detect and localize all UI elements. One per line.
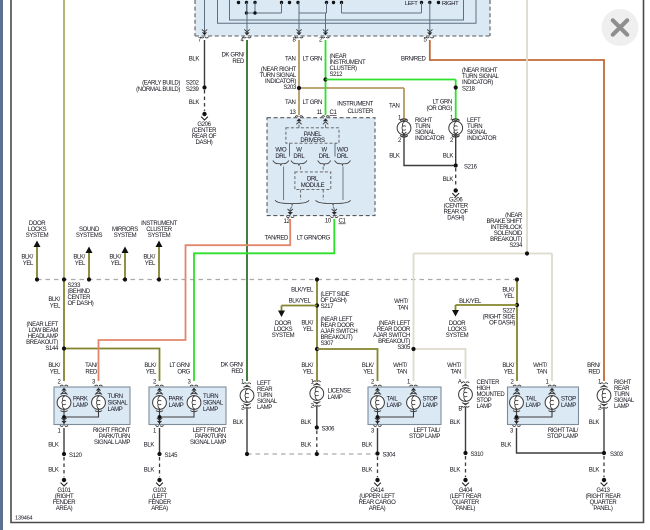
svg-text:S145: S145 xyxy=(165,453,179,459)
svg-text:WHT/: WHT/ xyxy=(393,363,408,369)
svg-text:BLK: BLK xyxy=(450,468,461,474)
cluster pin 11 C1 xyxy=(322,116,330,125)
park lamp bulb (right front) xyxy=(57,393,71,412)
svg-text:YEL: YEL xyxy=(75,261,86,267)
svg-text:10: 10 xyxy=(325,219,332,225)
svg-text:BRN/RED: BRN/RED xyxy=(401,57,427,63)
svg-text:LT GRN/ORG: LT GRN/ORG xyxy=(297,236,331,242)
svg-text:BLK: BLK xyxy=(233,420,244,426)
node sound systems arrow xyxy=(88,251,90,280)
ground G404 left rear quarter panel xyxy=(463,478,467,482)
svg-text:YEL: YEL xyxy=(50,304,61,310)
wire WHT/TAN from top to S234 xyxy=(526,0,528,254)
svg-text:BLK: BLK xyxy=(450,420,461,426)
svg-text:BLK/: BLK/ xyxy=(301,321,313,327)
svg-text:S239: S239 xyxy=(186,87,200,93)
svg-text:YEL: YEL xyxy=(504,370,515,376)
svg-text:OF DASH): OF DASH) xyxy=(489,321,515,327)
svg-text:SIGNAL LAMP: SIGNAL LAMP xyxy=(94,440,130,446)
svg-text:LAMP: LAMP xyxy=(169,403,184,409)
wire LT GRN/ORG cluster pin 10 to left front turn lamp xyxy=(194,219,334,381)
wire WHT/TAN branch to center high mounted stop lamp xyxy=(414,349,466,379)
svg-text:BLK/: BLK/ xyxy=(48,297,60,303)
turn signal lamp bulb (left front) xyxy=(187,393,201,412)
svg-text:LAMP: LAMP xyxy=(477,404,492,410)
svg-text:S202: S202 xyxy=(186,81,200,87)
svg-text:DASH): DASH) xyxy=(196,140,213,146)
panel drivers module xyxy=(298,125,300,128)
svg-text:BLK: BLK xyxy=(144,468,155,474)
cluster pin 12 xyxy=(290,207,292,210)
svg-text:LAMP: LAMP xyxy=(561,403,576,409)
svg-text:BLK: BLK xyxy=(189,100,200,106)
close button xyxy=(602,9,639,46)
svg-text:S217: S217 xyxy=(321,304,335,310)
svg-text:PANEL): PANEL) xyxy=(593,506,612,512)
svg-text:CLUSTER: CLUSTER xyxy=(347,109,374,115)
svg-text:BLK/: BLK/ xyxy=(21,255,33,261)
svg-text:YEL: YEL xyxy=(504,294,515,300)
svg-text:LAMP: LAMP xyxy=(108,407,123,413)
svg-text:BLK/: BLK/ xyxy=(144,363,156,369)
svg-text:LAMP: LAMP xyxy=(526,403,541,409)
ground G101 right fender area xyxy=(62,478,66,482)
switch contact dots xyxy=(237,1,240,4)
svg-text:S203: S203 xyxy=(283,85,297,91)
svg-text:DRL: DRL xyxy=(293,154,305,160)
svg-text:(EARLY BUILD): (EARLY BUILD) xyxy=(142,81,180,87)
svg-text:RED: RED xyxy=(85,370,98,376)
svg-text:SYSTEM: SYSTEM xyxy=(148,233,171,239)
svg-text:WHT/: WHT/ xyxy=(533,363,548,369)
svg-text:TAN: TAN xyxy=(450,370,461,376)
splice S233 behind center of dash xyxy=(62,277,66,281)
svg-text:BLK/YEL: BLK/YEL xyxy=(289,299,312,305)
ground G206 center rear of dash xyxy=(202,112,206,116)
svg-text:SYSTEM: SYSTEM xyxy=(26,233,49,239)
multifunction switch box (cut off at top) xyxy=(195,0,490,36)
svg-text:LAMP: LAMP xyxy=(73,403,88,409)
ground G206 center rear of dash (second) xyxy=(454,188,458,192)
svg-text:BLK/YEL: BLK/YEL xyxy=(291,288,314,294)
svg-text:BLK: BLK xyxy=(48,468,59,474)
turn signal lamp bulb (right front) xyxy=(92,393,106,412)
svg-text:WHT/: WHT/ xyxy=(447,363,462,369)
svg-text:STOP LAMP: STOP LAMP xyxy=(547,434,578,440)
svg-text:INSTRUMENT: INSTRUMENT xyxy=(337,102,374,108)
node door locks system arrow xyxy=(36,245,38,280)
svg-text:LAMP: LAMP xyxy=(387,403,402,409)
svg-text:(OR ORG): (OR ORG) xyxy=(426,106,452,112)
svg-text:BLK/: BLK/ xyxy=(143,255,155,261)
svg-text:DK GRN/: DK GRN/ xyxy=(221,53,244,59)
svg-text:TAN/RED: TAN/RED xyxy=(265,236,289,242)
splice S217 left side of dash xyxy=(316,280,318,382)
svg-text:TAN: TAN xyxy=(396,370,407,376)
svg-text:S216: S216 xyxy=(464,165,478,171)
svg-text:STOP: STOP xyxy=(561,397,576,403)
svg-text:YEL: YEL xyxy=(303,370,314,376)
svg-text:BLK: BLK xyxy=(301,443,312,449)
svg-text:TAN: TAN xyxy=(285,57,296,63)
ground G414 upper left rear cargo area xyxy=(375,478,379,482)
wire BLK/YEL arrow to door locks system (right) xyxy=(456,304,518,306)
svg-text:S234: S234 xyxy=(509,243,523,249)
svg-text:RED: RED xyxy=(588,370,601,376)
svg-text:BLK: BLK xyxy=(589,420,600,426)
tail lamp bulb (left) xyxy=(371,393,385,412)
splice S227 right side of dash xyxy=(516,280,518,382)
svg-text:DRL: DRL xyxy=(337,154,349,160)
stop lamp bulb (right) xyxy=(545,393,559,412)
svg-text:SIGNAL LAMP: SIGNAL LAMP xyxy=(190,440,226,446)
svg-text:BLK: BLK xyxy=(589,468,600,474)
svg-text:BLK: BLK xyxy=(362,443,373,449)
svg-text:W/O: W/O xyxy=(275,148,287,154)
switch inner outline A xyxy=(218,0,477,23)
svg-text:LAMP: LAMP xyxy=(257,405,272,411)
svg-text:LAMP: LAMP xyxy=(423,403,438,409)
svg-text:PARK: PARK xyxy=(169,397,184,403)
svg-text:BLK/: BLK/ xyxy=(109,255,121,261)
svg-text:TAN: TAN xyxy=(397,306,408,312)
svg-text:S306: S306 xyxy=(322,427,336,433)
svg-text:BLK/: BLK/ xyxy=(502,288,514,294)
tail lamp bulb (right) xyxy=(510,393,524,412)
wire BLK/YEL branch S307 to left tail lamp xyxy=(317,349,378,381)
svg-text:S120: S120 xyxy=(69,453,83,459)
svg-text:PANEL: PANEL xyxy=(304,132,322,138)
svg-text:SIGNAL: SIGNAL xyxy=(108,401,129,407)
svg-text:A: A xyxy=(458,380,462,386)
svg-text:PANEL): PANEL) xyxy=(456,506,475,512)
svg-text:S218: S218 xyxy=(462,87,476,93)
svg-text:AREA): AREA) xyxy=(56,506,73,512)
svg-text:C1: C1 xyxy=(330,110,338,116)
svg-text:W: W xyxy=(296,148,302,154)
svg-text:DRIVERS: DRIVERS xyxy=(300,138,325,144)
svg-text:PARK: PARK xyxy=(73,397,88,403)
svg-text:YEL: YEL xyxy=(303,327,314,333)
drl module xyxy=(295,172,331,190)
svg-text:INDICATOR): INDICATOR) xyxy=(462,80,493,86)
internal ground wiring box3 xyxy=(378,410,414,417)
node instrument cluster system arrow xyxy=(158,245,160,280)
instrument cluster box xyxy=(267,118,375,216)
svg-text:AREA): AREA) xyxy=(151,506,168,512)
switch contact stubs and links xyxy=(246,3,248,14)
cluster pin 10 C1 xyxy=(333,207,334,210)
svg-text:OF DASH): OF DASH) xyxy=(68,301,94,307)
switch drop wires to connector xyxy=(204,0,206,33)
wire TAN branch to right turn signal indicator xyxy=(299,87,404,89)
svg-text:DRL: DRL xyxy=(307,177,319,183)
svg-text:MODULE: MODULE xyxy=(301,183,325,189)
svg-text:S303: S303 xyxy=(610,452,624,458)
svg-text:YEL: YEL xyxy=(145,261,156,267)
svg-text:BLK: BLK xyxy=(501,443,512,449)
svg-text:LEFT: LEFT xyxy=(405,1,419,7)
svg-text:BLK/: BLK/ xyxy=(502,363,514,369)
ground G413 right rear quarter panel xyxy=(602,478,606,482)
svg-text:TAN: TAN xyxy=(285,100,296,106)
splice S303 xyxy=(602,451,606,455)
left tail/stop lamp box xyxy=(368,387,441,425)
svg-text:INDICATOR: INDICATOR xyxy=(467,136,497,142)
svg-text:TAN: TAN xyxy=(389,104,400,110)
svg-text:LT GRN/: LT GRN/ xyxy=(169,363,190,369)
svg-text:BLK/: BLK/ xyxy=(301,363,313,369)
svg-text:LT GRN: LT GRN xyxy=(303,100,322,106)
wire WHT/TAN branches xyxy=(414,253,553,255)
left front park/turn signal lamp box xyxy=(149,387,226,425)
wire BLK/YEL from top to S233 xyxy=(63,0,65,280)
svg-text:TAN/: TAN/ xyxy=(85,363,98,369)
output braces xyxy=(275,200,309,205)
drl option stubs xyxy=(283,167,285,201)
svg-text:BLK: BLK xyxy=(443,177,454,183)
svg-text:BLK: BLK xyxy=(389,154,400,160)
svg-text:SIGNAL: SIGNAL xyxy=(203,401,224,407)
svg-text:DRL: DRL xyxy=(319,154,331,160)
wire: dashed BLK/YEL bus behind dash xyxy=(37,279,517,281)
svg-text:DK GRN/: DK GRN/ xyxy=(220,363,243,369)
svg-text:BLK/: BLK/ xyxy=(48,363,60,369)
svg-text:DASH): DASH) xyxy=(447,216,464,222)
svg-text:TURN: TURN xyxy=(108,394,123,400)
svg-text:S305: S305 xyxy=(397,345,411,351)
internal ground wiring box4 xyxy=(517,410,553,417)
svg-text:BLK: BLK xyxy=(48,443,59,449)
svg-text:RED: RED xyxy=(231,369,244,375)
wire LT GRN branch to left turn signal indicator xyxy=(326,79,456,81)
svg-text:C1: C1 xyxy=(339,219,347,225)
svg-text:BLK: BLK xyxy=(443,154,454,160)
svg-text:SYSTEMS: SYSTEMS xyxy=(76,233,103,239)
switch inner outline B xyxy=(230,0,464,20)
svg-text:INDICATOR: INDICATOR xyxy=(415,136,445,142)
svg-text:S144: S144 xyxy=(45,346,59,352)
svg-text:S310: S310 xyxy=(471,452,485,458)
wire BLK/YEL branch S144 to left front lamp xyxy=(64,349,160,382)
wire: dashed ground bus rear lamps xyxy=(247,453,378,455)
svg-text:YEL: YEL xyxy=(111,261,122,267)
left window edge strip xyxy=(0,0,3,530)
svg-text:YEL: YEL xyxy=(50,370,61,376)
svg-text:WHT/: WHT/ xyxy=(394,299,409,305)
svg-text:LT GRN: LT GRN xyxy=(303,57,322,63)
svg-text:TAIL: TAIL xyxy=(387,397,399,403)
svg-text:W: W xyxy=(322,148,328,154)
svg-text:SYSTEM: SYSTEM xyxy=(272,333,295,339)
svg-text:RIGHT: RIGHT xyxy=(442,1,459,7)
svg-text:TAIL: TAIL xyxy=(526,397,538,403)
right front park/turn signal lamp box xyxy=(54,387,130,425)
svg-text:(NORMAL BUILD): (NORMAL BUILD) xyxy=(136,87,180,93)
svg-text:SYSTEM: SYSTEM xyxy=(446,333,469,339)
wire BLK from pin 7 xyxy=(204,40,206,88)
svg-text:LT GRN: LT GRN xyxy=(433,100,452,106)
svg-text:TURN: TURN xyxy=(203,394,218,400)
svg-text:BLK: BLK xyxy=(189,57,200,63)
svg-text:BLK: BLK xyxy=(362,468,373,474)
svg-text:LICENSE: LICENSE xyxy=(328,389,352,395)
svg-text:S304: S304 xyxy=(383,453,397,459)
svg-text:W/O: W/O xyxy=(337,148,349,154)
svg-text:LAMP: LAMP xyxy=(203,407,218,413)
internal ground wiring box2 xyxy=(160,410,195,417)
connector terminals pins 7 4 8 2 5 xyxy=(201,29,209,38)
svg-text:SYSTEM: SYSTEM xyxy=(114,233,137,239)
node mirrors system arrow xyxy=(124,251,126,280)
internal ground wiring box1 xyxy=(64,410,99,417)
svg-text:ORG: ORG xyxy=(177,370,190,376)
svg-text:BLK/: BLK/ xyxy=(73,255,85,261)
svg-text:BRN/: BRN/ xyxy=(587,363,601,369)
svg-text:BLK: BLK xyxy=(301,420,312,426)
svg-text:B: B xyxy=(458,407,462,413)
svg-text:RED: RED xyxy=(232,59,245,65)
splice S216 xyxy=(454,163,458,167)
svg-text:LAMP: LAMP xyxy=(328,395,343,401)
svg-text:S212: S212 xyxy=(330,72,344,78)
wire BLK/YEL arrow to door locks system (left) xyxy=(282,305,318,307)
svg-text:139464: 139464 xyxy=(15,516,33,522)
svg-text:13: 13 xyxy=(290,110,297,116)
svg-text:YEL: YEL xyxy=(23,261,34,267)
stop lamp bulb (left) xyxy=(407,393,421,412)
park lamp bulb (left front) xyxy=(153,393,167,412)
svg-text:DRL: DRL xyxy=(275,154,287,160)
wire TAN/RED cluster pin 12 to right front turn lamp xyxy=(99,219,291,381)
svg-text:AREA): AREA) xyxy=(369,506,386,512)
svg-text:BLK/: BLK/ xyxy=(362,363,374,369)
cluster pin 13 xyxy=(295,116,303,125)
svg-text:YEL: YEL xyxy=(363,370,374,376)
ground G102 left fender area xyxy=(157,478,161,482)
braces under drl options xyxy=(273,161,289,166)
svg-text:BLK: BLK xyxy=(144,443,155,449)
svg-text:STOP LAMP: STOP LAMP xyxy=(409,434,440,440)
svg-text:BLK/YEL: BLK/YEL xyxy=(459,299,482,305)
svg-text:TAN: TAN xyxy=(536,370,547,376)
svg-text:LAMP: LAMP xyxy=(614,404,629,410)
svg-text:STOP: STOP xyxy=(423,397,438,403)
svg-text:YEL: YEL xyxy=(146,370,157,376)
svg-text:S307: S307 xyxy=(321,341,335,347)
right tail/stop lamp box xyxy=(508,387,579,425)
